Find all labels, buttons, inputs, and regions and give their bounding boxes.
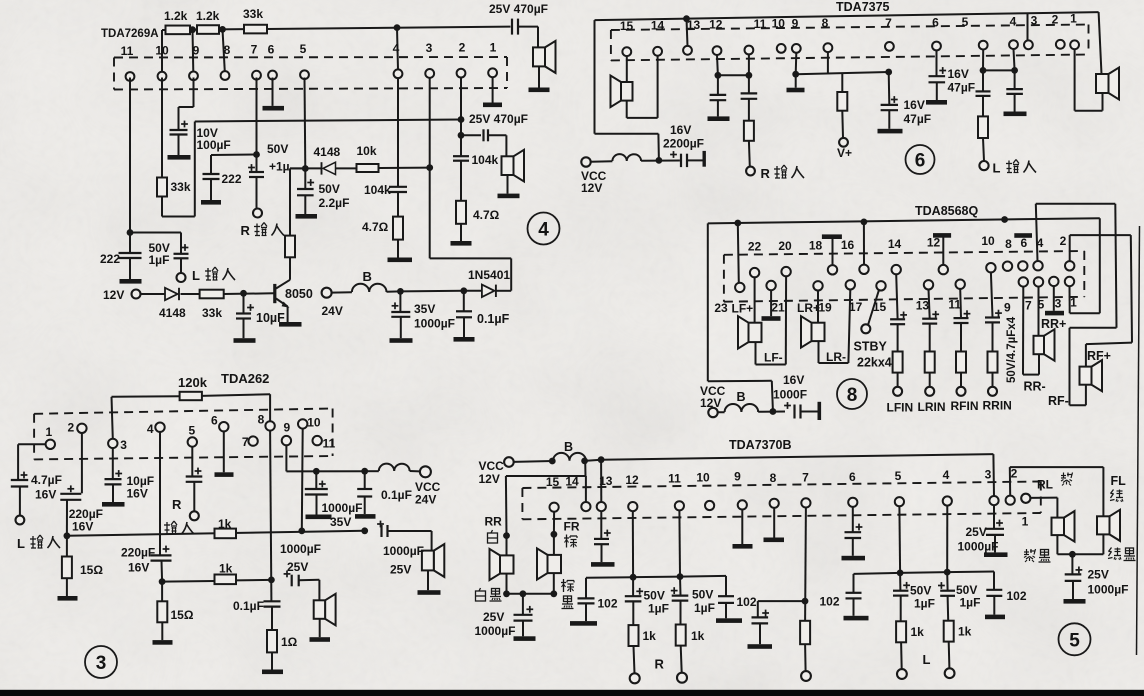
svg-text:24V: 24V (322, 304, 343, 318)
svg-text:1k: 1k (958, 625, 972, 639)
svg-text:17: 17 (849, 300, 863, 314)
svg-text:102: 102 (737, 595, 757, 609)
svg-text:22kx4: 22kx4 (857, 356, 892, 370)
svg-text:+1µ: +1µ (269, 160, 290, 174)
svg-text:8: 8 (847, 385, 858, 406)
svg-text:50V: 50V (692, 588, 713, 602)
svg-text:11: 11 (121, 44, 134, 58)
svg-text:12V: 12V (103, 288, 124, 302)
svg-text:21: 21 (771, 301, 785, 315)
svg-text:B: B (737, 390, 746, 404)
svg-text:16V: 16V (127, 487, 148, 501)
svg-text:RR: RR (485, 515, 503, 529)
svg-text:33k: 33k (171, 180, 191, 194)
svg-text:10k: 10k (357, 144, 377, 158)
svg-text:50V: 50V (644, 589, 665, 603)
svg-text:47µF: 47µF (904, 112, 932, 126)
svg-text:STBY: STBY (854, 340, 888, 354)
svg-text:100µF: 100µF (197, 138, 231, 152)
svg-text:222: 222 (222, 172, 242, 186)
svg-text:15: 15 (620, 19, 634, 33)
svg-text:1.2k: 1.2k (196, 9, 220, 23)
svg-text:50V/4.7µFx4: 50V/4.7µFx4 (1006, 316, 1018, 383)
svg-text:LRIN: LRIN (918, 400, 946, 414)
svg-text:16V: 16V (128, 561, 149, 575)
svg-text:4.7Ω: 4.7Ω (473, 208, 500, 222)
svg-text:4.7Ω: 4.7Ω (362, 220, 389, 234)
svg-text:22: 22 (748, 240, 762, 254)
svg-text:50V: 50V (319, 182, 340, 196)
svg-text:102: 102 (1007, 589, 1027, 603)
svg-text:4: 4 (1010, 14, 1017, 28)
svg-text:8: 8 (1005, 237, 1012, 251)
svg-text:B: B (363, 269, 372, 284)
svg-text:9: 9 (283, 421, 290, 435)
svg-text:1000F: 1000F (773, 388, 807, 402)
svg-text:47µF: 47µF (948, 81, 976, 95)
svg-text:0.1µF: 0.1µF (233, 599, 264, 613)
svg-text:15: 15 (546, 475, 560, 489)
svg-text:11: 11 (754, 17, 767, 31)
svg-text:R: R (761, 166, 771, 181)
svg-text:1: 1 (1022, 515, 1029, 529)
svg-text:1µF: 1µF (960, 596, 981, 610)
svg-text:1000µF: 1000µF (414, 317, 455, 331)
svg-text:RR+: RR+ (1041, 317, 1066, 331)
svg-text:11: 11 (668, 472, 681, 486)
svg-text:9: 9 (1004, 301, 1011, 315)
svg-text:10: 10 (981, 234, 995, 248)
svg-text:12V: 12V (479, 472, 500, 486)
svg-text:L: L (923, 652, 931, 667)
svg-text:1000µF: 1000µF (958, 540, 999, 554)
svg-text:3: 3 (120, 438, 127, 452)
svg-text:2200µF: 2200µF (663, 137, 704, 151)
svg-text:25V 470µF: 25V 470µF (469, 112, 528, 126)
svg-text:1µF: 1µF (648, 602, 669, 616)
svg-text:4148: 4148 (159, 306, 186, 320)
svg-text:LFIN: LFIN (887, 401, 914, 415)
svg-text:1k: 1k (218, 517, 232, 531)
svg-text:4.7µF: 4.7µF (31, 473, 62, 487)
svg-text:14: 14 (565, 475, 579, 489)
svg-text:L: L (993, 161, 1001, 176)
svg-text:16V: 16V (72, 520, 93, 534)
svg-text:6: 6 (849, 470, 856, 484)
svg-text:1: 1 (490, 40, 497, 54)
svg-text:TDA7375: TDA7375 (836, 0, 890, 14)
svg-text:120k: 120k (178, 375, 208, 390)
svg-text:8: 8 (822, 16, 829, 30)
svg-text:R: R (655, 657, 665, 672)
svg-text:6: 6 (211, 414, 218, 428)
svg-text:1000µF: 1000µF (280, 542, 321, 556)
svg-text:16V: 16V (670, 123, 691, 137)
svg-text:1000µF: 1000µF (322, 501, 363, 515)
svg-text:4: 4 (943, 468, 950, 482)
svg-text:4148: 4148 (314, 145, 341, 159)
svg-text:TDA7269A: TDA7269A (101, 28, 159, 40)
svg-text:1k: 1k (219, 562, 233, 576)
svg-text:222: 222 (100, 252, 120, 266)
svg-text:10: 10 (772, 17, 786, 31)
svg-text:5: 5 (300, 42, 307, 56)
svg-text:16V: 16V (904, 98, 925, 112)
svg-text:2: 2 (1052, 13, 1059, 27)
svg-text:VCC: VCC (479, 459, 505, 473)
svg-text:12V: 12V (700, 396, 721, 410)
svg-text:7: 7 (802, 471, 809, 485)
svg-text:3: 3 (985, 467, 992, 481)
svg-text:RFIN: RFIN (951, 399, 979, 413)
svg-text:2.2µF: 2.2µF (319, 196, 350, 210)
svg-text:4: 4 (147, 422, 154, 436)
svg-text:RF+: RF+ (1087, 349, 1111, 363)
svg-text:16V: 16V (35, 488, 56, 502)
svg-text:TDA262: TDA262 (221, 371, 269, 386)
svg-text:35V: 35V (414, 302, 435, 316)
svg-text:1k: 1k (643, 629, 657, 643)
svg-text:R: R (241, 223, 251, 238)
svg-text:LF+: LF+ (732, 302, 754, 316)
svg-text:25V: 25V (287, 560, 308, 574)
svg-text:L: L (17, 536, 25, 551)
svg-text:25V: 25V (1088, 568, 1109, 582)
svg-text:1: 1 (45, 425, 52, 439)
svg-text:FR: FR (564, 520, 580, 534)
svg-text:25V: 25V (390, 563, 411, 577)
svg-text:8: 8 (770, 471, 777, 485)
svg-text:0.1µF: 0.1µF (477, 312, 510, 326)
svg-text:33k: 33k (202, 306, 222, 320)
svg-text:6: 6 (1020, 236, 1027, 250)
svg-text:1: 1 (1070, 296, 1077, 310)
svg-text:16V: 16V (948, 67, 969, 81)
svg-text:12: 12 (709, 18, 723, 32)
svg-text:9: 9 (792, 17, 799, 31)
svg-text:1.2k: 1.2k (164, 9, 188, 23)
svg-text:104k: 104k (364, 183, 391, 197)
svg-text:13: 13 (916, 299, 930, 313)
svg-text:9: 9 (193, 43, 200, 57)
svg-text:1µF: 1µF (149, 253, 170, 267)
svg-text:11: 11 (322, 437, 335, 451)
svg-text:5: 5 (1069, 630, 1080, 651)
svg-text:1000µF: 1000µF (475, 624, 516, 638)
svg-text:13: 13 (687, 18, 701, 32)
svg-text:RF-: RF- (1048, 394, 1069, 408)
svg-text:2: 2 (1011, 467, 1018, 481)
svg-text:7: 7 (251, 43, 258, 57)
svg-text:18: 18 (809, 239, 823, 253)
svg-text:23: 23 (714, 301, 728, 315)
svg-text:220µF: 220µF (121, 546, 155, 560)
svg-text:LR+: LR+ (797, 301, 820, 315)
svg-text:50V: 50V (267, 142, 288, 156)
svg-text:35V: 35V (330, 515, 351, 529)
svg-text:19: 19 (818, 301, 832, 315)
svg-text:3: 3 (96, 653, 107, 674)
svg-text:1Ω: 1Ω (281, 635, 298, 649)
svg-text:102: 102 (598, 597, 618, 611)
svg-text:11: 11 (948, 298, 961, 312)
svg-text:10: 10 (307, 416, 321, 430)
svg-text:16V: 16V (783, 373, 804, 387)
svg-text:8: 8 (258, 413, 265, 427)
svg-text:6: 6 (932, 16, 939, 30)
svg-text:7: 7 (885, 16, 892, 30)
svg-text:8050: 8050 (285, 287, 313, 301)
svg-text:25V: 25V (966, 525, 987, 539)
svg-text:2: 2 (459, 41, 466, 55)
svg-text:24V: 24V (415, 493, 436, 507)
svg-text:1: 1 (1070, 11, 1077, 25)
svg-text:1k: 1k (691, 629, 705, 643)
svg-text:12: 12 (625, 473, 639, 487)
svg-text:6: 6 (268, 43, 275, 57)
svg-text:1000µF: 1000µF (383, 544, 424, 558)
svg-text:15Ω: 15Ω (80, 563, 103, 577)
svg-text:FL: FL (1111, 474, 1127, 488)
svg-text:V+: V+ (837, 146, 852, 160)
svg-text:7: 7 (242, 435, 249, 449)
svg-text:10: 10 (155, 44, 169, 58)
svg-text:RL: RL (1037, 478, 1053, 492)
svg-text:9: 9 (734, 470, 741, 484)
svg-text:5: 5 (189, 424, 196, 438)
svg-text:1µF: 1µF (694, 601, 715, 615)
svg-text:1µF: 1µF (914, 597, 935, 611)
svg-text:5: 5 (962, 15, 969, 29)
svg-text:14: 14 (651, 19, 665, 33)
svg-text:0.1µF: 0.1µF (381, 488, 412, 502)
svg-text:102: 102 (820, 595, 840, 609)
svg-text:RRIN: RRIN (983, 398, 1012, 412)
svg-text:3: 3 (426, 41, 433, 55)
svg-text:TDA8568Q: TDA8568Q (915, 204, 978, 218)
svg-text:20: 20 (778, 239, 792, 253)
svg-text:25V: 25V (483, 610, 504, 624)
svg-text:7: 7 (1025, 299, 1032, 313)
svg-text:12V: 12V (581, 181, 602, 195)
svg-text:1N5401: 1N5401 (468, 268, 510, 282)
svg-text:4: 4 (538, 220, 549, 241)
svg-text:LR-: LR- (826, 350, 846, 364)
svg-text:3: 3 (1055, 297, 1062, 311)
svg-text:TDA7370B: TDA7370B (729, 438, 792, 452)
svg-text:10: 10 (696, 471, 710, 485)
svg-text:1k: 1k (911, 625, 925, 639)
svg-text:14: 14 (888, 237, 902, 251)
svg-text:50V: 50V (910, 584, 931, 598)
svg-text:25V 470µF: 25V 470µF (489, 2, 548, 16)
svg-text:R: R (172, 497, 182, 512)
svg-text:5: 5 (895, 469, 902, 483)
svg-text:8: 8 (224, 43, 231, 57)
svg-text:3: 3 (1031, 13, 1038, 27)
svg-text:LF-: LF- (764, 351, 783, 365)
svg-text:2: 2 (1060, 234, 1067, 248)
svg-text:16: 16 (841, 238, 855, 252)
svg-text:6: 6 (915, 151, 926, 172)
svg-text:2: 2 (67, 421, 74, 435)
svg-text:L: L (192, 268, 200, 283)
svg-text:RR-: RR- (1024, 380, 1046, 394)
svg-text:B: B (564, 440, 573, 454)
svg-text:1000µF: 1000µF (1088, 583, 1129, 597)
svg-text:4: 4 (393, 41, 400, 55)
svg-text:104k: 104k (472, 153, 499, 167)
svg-text:15Ω: 15Ω (171, 608, 194, 622)
svg-text:33k: 33k (243, 7, 263, 21)
